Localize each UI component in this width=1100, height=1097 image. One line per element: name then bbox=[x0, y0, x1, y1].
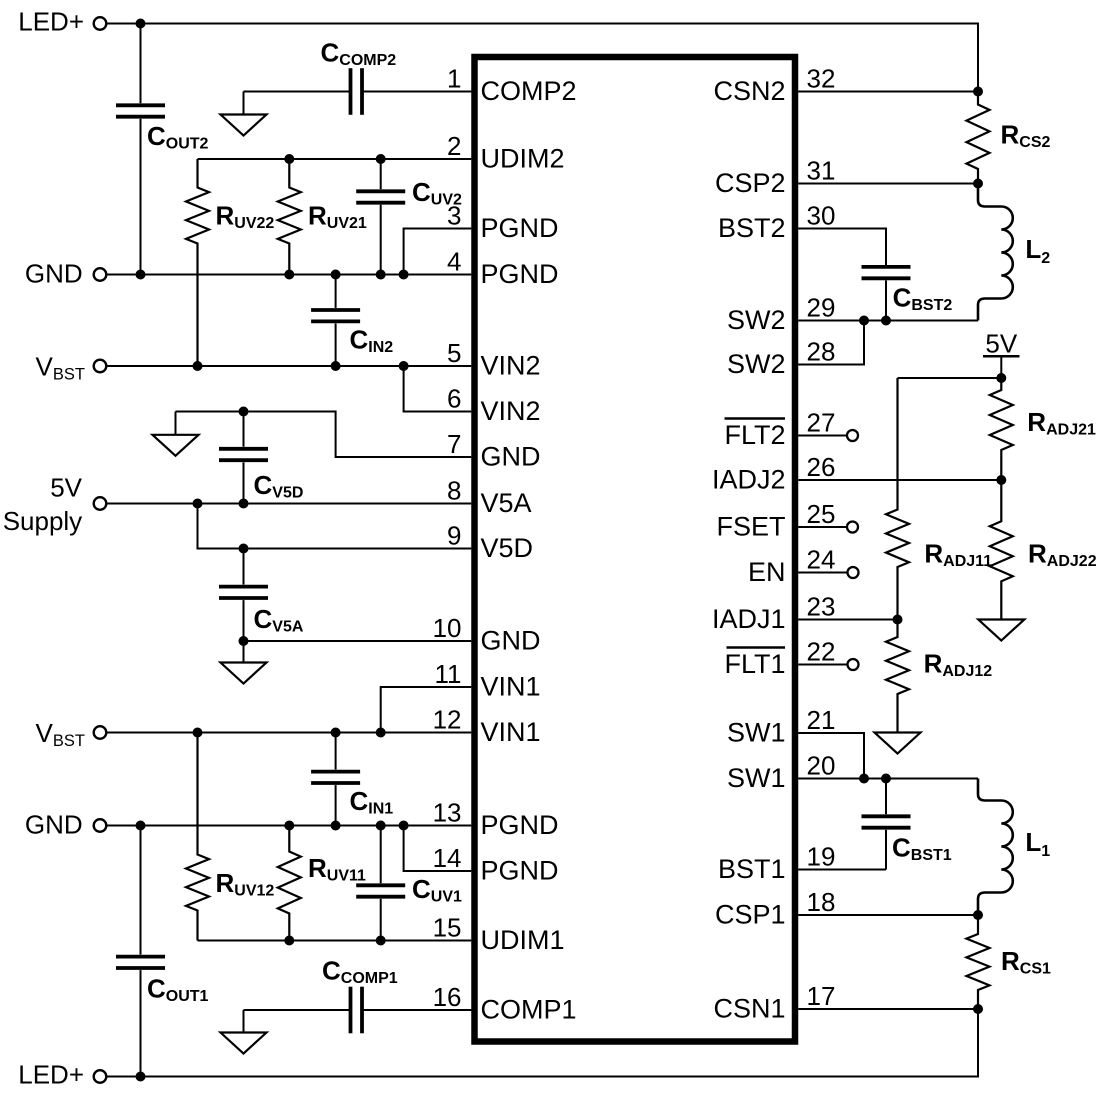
wire pin2 UDIM2 row bbox=[198, 158, 472, 160]
svg-text:5: 5 bbox=[447, 338, 461, 368]
svg-text:UDIM1: UDIM1 bbox=[481, 925, 565, 955]
node LED+ / COUT2 junction bbox=[136, 19, 146, 29]
node SW2/SW2 link bbox=[859, 316, 869, 326]
wire GND row to pin4 bbox=[106, 274, 471, 276]
inductor L1 bbox=[978, 779, 1013, 916]
terminal LED+ (bottom) bbox=[94, 1070, 107, 1083]
resistor RADJ12 bbox=[886, 620, 909, 733]
node GNDb/RUV11 bbox=[284, 821, 294, 831]
svg-text:PGND: PGND bbox=[481, 810, 559, 840]
svg-text:CSP2: CSP2 bbox=[715, 168, 786, 198]
svg-text:FLT2: FLT2 bbox=[724, 420, 785, 450]
node UDIM1/RUV11 bbox=[284, 936, 294, 946]
wire pin22 FLT1 bbox=[798, 664, 847, 666]
svg-text:8: 8 bbox=[447, 476, 461, 506]
node VBST/CIN1 bbox=[331, 728, 341, 738]
svg-text:VIN2: VIN2 bbox=[481, 351, 541, 381]
svg-text:14: 14 bbox=[433, 843, 462, 873]
svg-text:4: 4 bbox=[447, 247, 461, 277]
capacitor CV5A bbox=[243, 549, 245, 585]
node SW1/SW1 link bbox=[859, 774, 869, 784]
node SW1/CBST1 bbox=[881, 774, 891, 784]
svg-text:GND: GND bbox=[25, 810, 83, 840]
node VBST/CIN2 bbox=[331, 361, 341, 371]
resistor RADJ22 bbox=[990, 480, 1013, 620]
svg-text:PGND: PGND bbox=[481, 213, 559, 243]
svg-text:SW1: SW1 bbox=[727, 718, 786, 748]
node VBST/RUV12 bbox=[193, 728, 203, 738]
svg-text:GND: GND bbox=[481, 442, 541, 472]
wire GND row to pin13 bbox=[106, 825, 471, 827]
wire LED+ top rail bbox=[106, 24, 978, 92]
svg-text:VIN2: VIN2 bbox=[481, 396, 541, 426]
node V5D/CV5A bbox=[239, 544, 249, 554]
node IADJ1/RADJ11/RADJ12 bbox=[893, 615, 903, 625]
resistor RUV21 bbox=[278, 159, 301, 275]
svg-text:BST1: BST1 bbox=[718, 854, 786, 884]
wire pin11 VIN1 link bbox=[381, 687, 472, 733]
wire gnd line (5V section) bbox=[176, 412, 472, 458]
wire pin18 CSP1 bbox=[798, 914, 978, 916]
svg-text:22: 22 bbox=[807, 637, 836, 667]
node VBST/RUV22 bbox=[193, 361, 203, 371]
svg-text:GND: GND bbox=[481, 626, 541, 656]
U1 right pin labels bbox=[712, 76, 786, 1024]
node gnd line / CV5D bbox=[239, 407, 249, 417]
svg-text:SW1: SW1 bbox=[727, 763, 786, 793]
wire COMP1 to ground bbox=[243, 1010, 245, 1033]
node LED+b/COUT1 bbox=[136, 1072, 146, 1082]
wire VBST row to pin12 bbox=[106, 732, 471, 734]
node GND/RUV21 bbox=[284, 270, 294, 280]
capacitor CUV1 bbox=[380, 826, 382, 884]
svg-text:CSN1: CSN1 bbox=[713, 994, 785, 1024]
terminal LED+ (top) bbox=[94, 17, 107, 30]
resistor RCS1 bbox=[967, 915, 990, 1009]
svg-text:21: 21 bbox=[807, 705, 836, 735]
svg-text:IADJ2: IADJ2 bbox=[712, 465, 786, 495]
pin 24 open circle bbox=[848, 567, 859, 578]
capacitor CCOMP2 bbox=[244, 91, 351, 93]
svg-text:VIN1: VIN1 bbox=[481, 717, 541, 747]
wire COMP2 to ground bbox=[243, 92, 245, 115]
ground (CCOMP1) bbox=[221, 1033, 267, 1054]
svg-text:2: 2 bbox=[447, 131, 461, 161]
svg-text:31: 31 bbox=[807, 156, 836, 186]
svg-text:V5D: V5D bbox=[481, 533, 534, 563]
wire pin29 SW2 row bbox=[798, 320, 978, 322]
svg-text:25: 25 bbox=[807, 499, 836, 529]
svg-text:FLT1: FLT1 bbox=[724, 649, 785, 679]
node GNDb/CUV1 bbox=[376, 821, 386, 831]
terminal GND (lower) bbox=[94, 819, 107, 832]
svg-text:CSP1: CSP1 bbox=[715, 900, 786, 930]
svg-text:VIN1: VIN1 bbox=[481, 672, 541, 702]
resistor RUV22 bbox=[186, 159, 209, 366]
resistor RUV12 bbox=[186, 733, 209, 941]
svg-text:BST2: BST2 bbox=[718, 213, 786, 243]
ground (CV5A) bbox=[221, 663, 267, 684]
svg-text:PGND: PGND bbox=[481, 259, 559, 289]
svg-text:26: 26 bbox=[807, 452, 836, 482]
svg-text:29: 29 bbox=[807, 293, 836, 323]
svg-text:5V: 5V bbox=[985, 329, 1017, 359]
svg-text:PGND: PGND bbox=[481, 856, 559, 886]
U1 FLT2 overbar bbox=[725, 417, 786, 419]
wire VBST row to pin5 bbox=[106, 365, 471, 367]
wire pin3 PGND link bbox=[404, 229, 472, 275]
resistor RADJ11 bbox=[886, 378, 909, 620]
pin 25 open circle bbox=[847, 522, 858, 533]
U1 left pin labels bbox=[481, 76, 577, 1025]
svg-text:EN: EN bbox=[748, 557, 786, 587]
svg-text:GND: GND bbox=[25, 259, 83, 289]
wire pin1 COMP2 right segment bbox=[364, 91, 471, 93]
ground (CCOMP2) bbox=[221, 115, 267, 136]
node 5V/RADJ21 bbox=[996, 373, 1006, 383]
wire pin9 V5D link bbox=[198, 504, 472, 549]
node GND/COUT2 bbox=[136, 270, 146, 280]
capacitor CIN2 bbox=[335, 275, 337, 308]
svg-text:27: 27 bbox=[807, 408, 836, 438]
node VIN1 link/VBST row bbox=[376, 728, 386, 738]
terminal GND (upper) bbox=[94, 268, 107, 281]
wire pin20 SW1 row bbox=[798, 778, 978, 780]
svg-text:6: 6 bbox=[447, 384, 461, 414]
svg-text:V5A: V5A bbox=[481, 488, 532, 518]
svg-text:16: 16 bbox=[433, 982, 462, 1012]
wire LED+ bottom rail bbox=[106, 1009, 978, 1077]
node UDIM1/CUV1 bbox=[376, 936, 386, 946]
svg-text:13: 13 bbox=[433, 798, 462, 828]
node CSP1/L1/RCS1 bbox=[973, 910, 983, 920]
wire pin24 EN bbox=[798, 572, 847, 574]
svg-text:9: 9 bbox=[447, 521, 461, 551]
wire pin28 SW2 link bbox=[798, 321, 864, 365]
svg-text:11: 11 bbox=[435, 659, 462, 689]
node GNDb/pin14 bbox=[399, 821, 409, 831]
capacitor CBST1 bbox=[885, 779, 887, 815]
node GND/pin3 bbox=[399, 270, 409, 280]
capacitor CBST2 bbox=[885, 264, 887, 267]
svg-text:FSET: FSET bbox=[716, 512, 785, 542]
svg-text:SW2: SW2 bbox=[727, 305, 786, 335]
capacitor COUT1 bbox=[140, 826, 142, 955]
node GND/CIN2 bbox=[331, 270, 341, 280]
wire pin23 IADJ1 bbox=[798, 619, 897, 621]
terminal VBST (upper) bbox=[94, 360, 107, 373]
wire pin6 VIN2 link bbox=[404, 366, 472, 412]
svg-text:20: 20 bbox=[807, 751, 836, 781]
svg-text:19: 19 bbox=[807, 842, 836, 872]
pin 27 open circle bbox=[847, 430, 858, 441]
U1 right pin numbers 17-32 bbox=[807, 64, 836, 1012]
wire 5V node to RADJ11 bbox=[898, 377, 1002, 379]
wire 5V supply row to pin8 bbox=[106, 503, 471, 505]
node CSN1/RCS1/rail bbox=[973, 1004, 983, 1014]
node CV5A/GND pin10 bbox=[239, 636, 249, 646]
svg-text:23: 23 bbox=[807, 592, 836, 622]
svg-text:15: 15 bbox=[433, 913, 462, 943]
wire pin21 SW1 link bbox=[798, 733, 864, 779]
svg-text:COMP1: COMP1 bbox=[481, 995, 577, 1025]
svg-text:10: 10 bbox=[433, 613, 462, 643]
svg-text:28: 28 bbox=[807, 337, 836, 367]
wire pin32 CSN2 bbox=[798, 91, 978, 93]
svg-text:24: 24 bbox=[807, 545, 836, 575]
ground (RADJ12) bbox=[875, 733, 921, 754]
svg-text:18: 18 bbox=[807, 887, 836, 917]
wire pin17 CSN1 bbox=[798, 1008, 978, 1010]
ground (5V section) bbox=[153, 435, 199, 456]
capacitor COUT2 bbox=[140, 24, 142, 104]
node CSP2/L2 bbox=[973, 179, 983, 189]
wire UDIM1 row to pin15 bbox=[198, 940, 472, 942]
node VBST/pin6 bbox=[399, 361, 409, 371]
resistor RUV11 bbox=[278, 826, 301, 941]
svg-text:CSN2: CSN2 bbox=[713, 76, 785, 106]
wire gnd stem bbox=[175, 412, 177, 435]
node GNDb/CIN1 bbox=[331, 821, 341, 831]
U1 FLT1 overbar bbox=[727, 646, 786, 648]
capacitor CUV2 bbox=[380, 159, 382, 189]
U1 left pin numbers 1-16 bbox=[433, 64, 462, 1013]
svg-text:7: 7 bbox=[447, 429, 461, 459]
node IADJ2/RADJ21/RADJ22 bbox=[996, 475, 1006, 485]
capacitor CV5D bbox=[243, 412, 245, 447]
wire pin19 BST1 bbox=[798, 869, 886, 871]
node SW2/CBST2 bbox=[881, 316, 891, 326]
wire pin26 IADJ2 bbox=[798, 479, 1001, 481]
node UDIM2/RUV21 bbox=[284, 154, 294, 164]
svg-text:SW2: SW2 bbox=[727, 349, 786, 379]
wire pin30 BST2 to CBST2 bbox=[798, 229, 886, 266]
node GNDb/COUT1 bbox=[136, 821, 146, 831]
svg-text:UDIM2: UDIM2 bbox=[481, 144, 565, 174]
svg-text:5V: 5V bbox=[50, 472, 82, 502]
svg-text:1: 1 bbox=[447, 64, 461, 94]
svg-text:12: 12 bbox=[433, 705, 462, 735]
wire pin31 CSP2 bbox=[798, 183, 978, 185]
svg-text:30: 30 bbox=[807, 201, 836, 231]
wire pin25 FSET bbox=[798, 526, 847, 528]
terminal 5V Supply bbox=[94, 497, 107, 510]
svg-text:17: 17 bbox=[807, 981, 836, 1011]
capacitor CIN1 bbox=[335, 733, 337, 770]
svg-text:LED+: LED+ bbox=[18, 1060, 84, 1090]
wire CV5A gnd stem bbox=[243, 641, 245, 663]
svg-text:32: 32 bbox=[807, 64, 836, 94]
svg-text:COMP2: COMP2 bbox=[481, 76, 577, 106]
node CSN2/RCS2 bbox=[973, 87, 983, 97]
node UDIM2/CUV2 bbox=[376, 154, 386, 164]
wire pin16 COMP1 right segment bbox=[364, 1009, 471, 1011]
svg-text:LED+: LED+ bbox=[18, 7, 84, 37]
wire pin27 FLT2 bbox=[798, 435, 847, 437]
wire pin10 GND row bbox=[244, 640, 472, 642]
op-amp U1 IC body outline (32-pin) bbox=[475, 57, 796, 1042]
resistor RADJ21 bbox=[990, 378, 1013, 480]
pin 22 open circle bbox=[848, 659, 859, 670]
node 5V/CV5D bbox=[239, 499, 249, 509]
inductor L2 bbox=[978, 184, 1013, 321]
terminal VBST (lower) bbox=[94, 726, 107, 739]
node GND/CUV2 bbox=[376, 270, 386, 280]
resistor RCS2 bbox=[967, 92, 990, 184]
node 5V/RUV-col bbox=[193, 499, 203, 509]
svg-text:Supply: Supply bbox=[3, 506, 83, 536]
svg-text:IADJ1: IADJ1 bbox=[712, 604, 786, 634]
ground (RADJ22) bbox=[978, 620, 1024, 641]
wire pin14 PGND link bbox=[404, 826, 472, 872]
capacitor CCOMP1 bbox=[244, 1009, 351, 1011]
